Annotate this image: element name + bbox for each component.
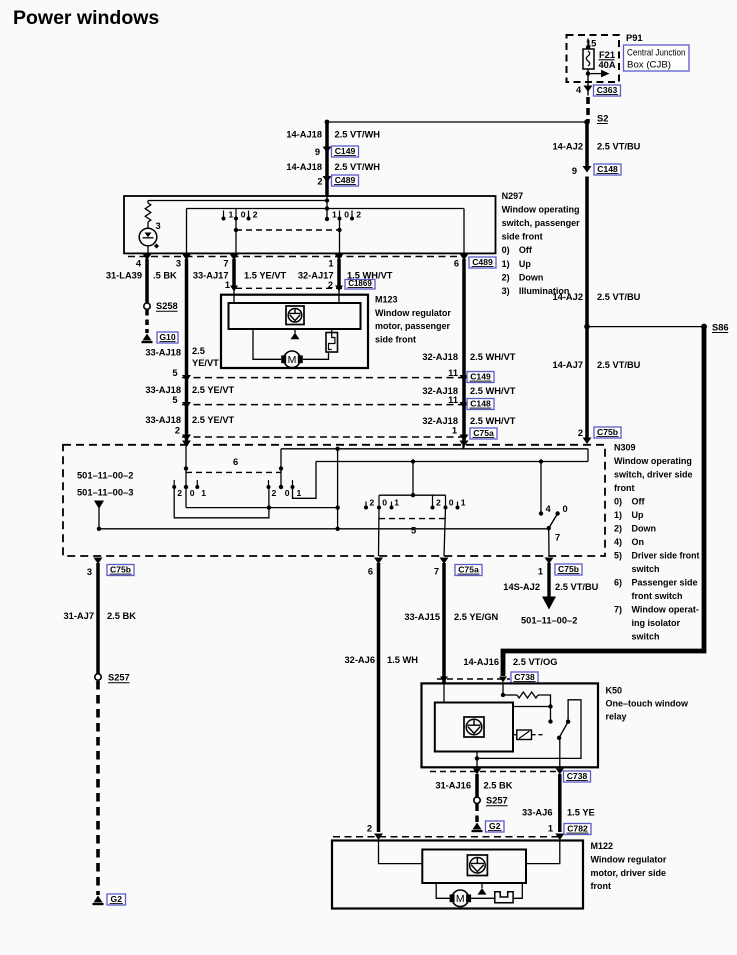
svg-text:31-LA39: 31-LA39	[106, 271, 142, 281]
passenger section contacts 2 0 1 / 2 0 1	[173, 480, 175, 487]
svg-text:3: 3	[156, 221, 161, 231]
svg-text:front: front	[591, 881, 612, 891]
svg-text:motor, driver side: motor, driver side	[591, 868, 667, 878]
svg-text:6): 6)	[614, 578, 622, 588]
svg-text:9: 9	[572, 166, 577, 176]
svg-text:Down: Down	[632, 524, 657, 534]
wire fuse output with feed arrow	[587, 69, 589, 96]
svg-text:501–11–00–2: 501–11–00–2	[521, 616, 577, 626]
mechanical link switch1-switch2	[236, 229, 340, 231]
svg-text:0: 0	[241, 209, 246, 219]
latching loop wires	[477, 700, 581, 759]
thermal cutout	[495, 892, 513, 903]
connector C363 pin 4	[584, 86, 593, 93]
svg-text:7: 7	[434, 567, 439, 577]
svg-text:Driver side front: Driver side front	[632, 551, 700, 561]
svg-text:C363: C363	[597, 85, 618, 95]
svg-text:1: 1	[201, 488, 206, 498]
connector C148 plane pins 5 11	[182, 404, 464, 406]
svg-text:G10: G10	[159, 332, 175, 342]
position sensor stem	[481, 883, 483, 888]
wire 32-AJ17 1.5 WH/VT to motor	[337, 259, 341, 288]
svg-text:2: 2	[367, 824, 372, 834]
svg-text:1.5 YE: 1.5 YE	[567, 808, 595, 818]
svg-text:2.5 WH/VT: 2.5 WH/VT	[470, 352, 516, 362]
relay output to C738	[559, 738, 561, 768]
svg-text:32-AJ6: 32-AJ6	[345, 655, 376, 665]
svg-text:S257: S257	[486, 796, 508, 806]
wire 33-AJ17 1.5 YE/VT to motor	[232, 259, 236, 288]
svg-text:M123: M123	[375, 295, 398, 305]
wire contact 1R to feed	[293, 462, 317, 499]
svg-text:2: 2	[370, 498, 375, 508]
svg-text:C782: C782	[567, 824, 588, 834]
wire 32-AJ18 2.5 WH/VT (passenger window)	[462, 259, 466, 441]
svg-text:1.5 YE/VT: 1.5 YE/VT	[244, 271, 287, 281]
connector C489 pin 2	[323, 176, 332, 183]
svg-text:0: 0	[449, 498, 454, 508]
svg-text:C75a: C75a	[473, 428, 494, 438]
svg-text:Illumination: Illumination	[519, 286, 570, 296]
svg-text:6: 6	[454, 259, 459, 269]
svg-text:G2: G2	[111, 894, 123, 904]
svg-text:2: 2	[175, 426, 180, 436]
svg-text:2.5 VT/WH: 2.5 VT/WH	[335, 130, 381, 140]
svg-text:501–11–00–3: 501–11–00–3	[77, 488, 133, 498]
switch 1 contacts 1-0-2	[223, 211, 225, 219]
svg-text:N297: N297	[502, 191, 524, 201]
wire pin2 C1869 into module	[338, 288, 340, 303]
wire 31-LA39 .5 BK to ground G10	[145, 259, 149, 303]
svg-text:9: 9	[315, 147, 320, 157]
svg-text:2.5 VT/BU: 2.5 VT/BU	[597, 360, 641, 370]
driver switch feed bar	[379, 494, 446, 496]
svg-text:1: 1	[225, 280, 230, 290]
svg-text:32-AJ18: 32-AJ18	[422, 352, 458, 362]
svg-text:Down: Down	[519, 272, 544, 282]
position sensor stem	[294, 329, 296, 333]
svg-text:switch: switch	[632, 564, 660, 574]
svg-text:S86: S86	[712, 322, 729, 332]
svg-text:1: 1	[328, 259, 333, 269]
Central Junction Box (CJB) label box	[624, 45, 690, 71]
connector C149 pin 9	[323, 147, 332, 154]
svg-text:2.5 VT/OG: 2.5 VT/OG	[513, 657, 557, 667]
connector C489 plane pins 4 3 7 1 6	[128, 256, 466, 258]
svg-text:14-AJ16: 14-AJ16	[463, 657, 499, 667]
svg-text:2): 2)	[614, 524, 622, 534]
wire 14-AJ18 2.5 VT/WH	[325, 122, 329, 197]
wiper column right passenger section	[280, 449, 282, 487]
splice S86	[587, 326, 704, 328]
mechanical link 6 passenger section	[186, 471, 281, 473]
svg-text:14-AJ18: 14-AJ18	[286, 162, 322, 172]
svg-text:33-AJ15: 33-AJ15	[404, 612, 440, 622]
svg-text:.5 BK: .5 BK	[153, 271, 177, 281]
svg-text:3: 3	[87, 567, 92, 577]
svg-text:C148: C148	[597, 164, 618, 174]
connector C149 plane pins 5 11	[182, 377, 464, 379]
wire feed line upper (WH/VT)	[281, 448, 588, 450]
svg-text:F21: F21	[599, 50, 615, 60]
svg-text:0: 0	[563, 504, 568, 514]
svg-text:1.5 WH: 1.5 WH	[387, 655, 418, 665]
motor module inner box	[229, 303, 361, 329]
svg-text:31-AJ16: 31-AJ16	[435, 781, 471, 791]
svg-text:32-AJ18: 32-AJ18	[422, 416, 458, 426]
svg-text:6: 6	[368, 567, 373, 577]
svg-text:Up: Up	[519, 259, 531, 269]
wire battery feed dashed to S2	[586, 97, 590, 122]
svg-text:2.5 VT/WH: 2.5 VT/WH	[335, 162, 381, 172]
svg-text:C75b: C75b	[597, 427, 618, 437]
svg-text:14S-AJ2: 14S-AJ2	[503, 582, 540, 592]
svg-text:M122: M122	[591, 841, 614, 851]
svg-text:side front: side front	[375, 334, 416, 344]
svg-text:C75b: C75b	[558, 564, 579, 574]
svg-text:0: 0	[190, 488, 195, 498]
wire YE/GN entry to module	[443, 683, 445, 702]
svg-text:7: 7	[555, 533, 560, 543]
svg-text:Central Junction: Central Junction	[627, 47, 686, 57]
svg-text:2: 2	[436, 498, 441, 508]
wire common return line	[99, 528, 549, 530]
relay switch blade	[559, 722, 568, 738]
svg-text:C738: C738	[514, 672, 535, 682]
wire WH/VT branch column	[337, 449, 339, 529]
svg-text:switch, driver side: switch, driver side	[614, 470, 693, 480]
splice S2	[327, 121, 587, 123]
svg-text:2: 2	[328, 280, 333, 290]
svg-text:1: 1	[394, 498, 399, 508]
connector C738 plane lower	[430, 771, 558, 773]
svg-text:31-AJ7: 31-AJ7	[64, 611, 95, 621]
motor M armature	[284, 351, 301, 368]
illumination lamp with resistor, position 3	[147, 201, 149, 204]
wire 33-AJ6 1.5 YE	[558, 774, 562, 832]
M122 window regulator motor driver side front - enclosure	[332, 841, 583, 909]
wire contact 2-2 link	[174, 487, 269, 518]
svg-text:1: 1	[461, 498, 466, 508]
wire thermal to module	[513, 883, 522, 898]
relay module inner box	[435, 703, 513, 752]
connector C738 plane upper	[437, 678, 510, 680]
svg-text:33-AJ6: 33-AJ6	[522, 808, 553, 818]
svg-text:Power windows: Power windows	[13, 7, 159, 29]
wire feed drop to driver switch	[412, 462, 414, 496]
svg-text:4: 4	[136, 259, 142, 269]
svg-text:S2: S2	[597, 113, 608, 123]
svg-text:switch, passenger: switch, passenger	[502, 218, 581, 228]
N309 exit arrows	[94, 558, 103, 565]
N297 window operating switch passenger side front - enclosure	[124, 196, 496, 253]
svg-text:YE/VT: YE/VT	[192, 358, 219, 368]
svg-text:0: 0	[382, 498, 387, 508]
connector C148 pin 9	[583, 166, 592, 173]
svg-text:2.5 VT/BU: 2.5 VT/BU	[597, 142, 641, 152]
svg-text:M: M	[288, 354, 297, 366]
svg-text:1: 1	[332, 209, 337, 219]
svg-text:0: 0	[344, 209, 349, 219]
switch 2 wiper to pin 1	[339, 219, 341, 254]
wire 32-AJ6 1.5 WH to M122	[377, 563, 381, 832]
internal switch feed wire	[187, 208, 465, 210]
svg-text:4: 4	[546, 504, 552, 514]
svg-text:5: 5	[411, 526, 416, 536]
svg-text:Off: Off	[632, 497, 646, 507]
svg-text:2.5 VT/BU: 2.5 VT/BU	[597, 292, 641, 302]
N309 entry arrows	[182, 441, 191, 448]
wire 14-AJ2 2.5 VT/BU upper	[585, 122, 589, 167]
motor module inner box	[422, 850, 526, 884]
svg-text:One–touch window: One–touch window	[606, 699, 689, 709]
svg-text:Window operat-: Window operat-	[632, 605, 699, 615]
svg-text:0): 0)	[614, 497, 622, 507]
svg-text:C1869: C1869	[348, 279, 372, 288]
svg-text:33-AJ18: 33-AJ18	[145, 385, 181, 395]
wire 14-AJ2 2.5 VT/BU to S86 junction	[585, 177, 589, 441]
svg-text:33-AJ18: 33-AJ18	[145, 415, 181, 425]
svg-text:M: M	[456, 893, 465, 905]
svg-text:32-AJ17: 32-AJ17	[298, 271, 334, 281]
svg-text:1: 1	[452, 426, 457, 436]
K50 one-touch window relay - enclosure	[422, 683, 599, 767]
internal illumination feed wire	[148, 200, 327, 202]
svg-text:1: 1	[229, 209, 234, 219]
svg-text:C149: C149	[470, 372, 491, 382]
fuse F21 40A	[587, 39, 589, 50]
svg-text:2): 2)	[502, 272, 510, 282]
svg-text:3: 3	[176, 259, 181, 269]
svg-text:0: 0	[285, 488, 290, 498]
svg-text:15: 15	[586, 38, 596, 48]
wire WH entry to module	[379, 841, 423, 864]
connector C782 plane pins 2 1	[333, 836, 560, 838]
wire module to motor left brush	[253, 329, 281, 359]
thermal protector	[326, 333, 338, 353]
svg-text:2.5 BK: 2.5 BK	[107, 611, 136, 621]
node pin2 entry column	[326, 196, 328, 219]
wire module to contact	[513, 706, 551, 708]
svg-text:6: 6	[233, 457, 238, 467]
svg-text:4): 4)	[614, 537, 622, 547]
svg-text:switch: switch	[632, 632, 660, 642]
svg-text:11: 11	[448, 395, 458, 405]
svg-text:Window operating: Window operating	[502, 205, 580, 215]
svg-text:C75a: C75a	[458, 565, 479, 575]
window regulator mechanism symbol	[467, 855, 487, 876]
wire module to motor left brush	[436, 883, 449, 898]
wire 31-AJ7 2.5 BK to ground G2	[96, 563, 100, 674]
svg-text:Up: Up	[632, 510, 644, 520]
svg-text:2.5 YE/VT: 2.5 YE/VT	[192, 415, 235, 425]
svg-text:ing isolator: ing isolator	[632, 618, 681, 628]
svg-text:501–11–00–2: 501–11–00–2	[77, 471, 133, 481]
wire thermal to motor right brush	[303, 352, 329, 359]
connector C75a plane pins 2 1	[182, 436, 467, 438]
svg-text:On: On	[632, 537, 645, 547]
wire VT/OG entry	[502, 683, 504, 695]
svg-text:2.5 WH/VT: 2.5 WH/VT	[470, 386, 516, 396]
svg-text:2.5 YE/GN: 2.5 YE/GN	[454, 612, 499, 622]
svg-text:1: 1	[548, 824, 553, 834]
svg-text:4: 4	[576, 85, 582, 95]
svg-text:1: 1	[538, 567, 543, 577]
resistor in relay	[503, 694, 517, 696]
svg-text:40A: 40A	[599, 60, 616, 70]
svg-text:C75b: C75b	[110, 565, 131, 575]
svg-text:motor, passenger: motor, passenger	[375, 321, 451, 331]
svg-text:5: 5	[172, 368, 177, 378]
svg-text:S258: S258	[156, 301, 178, 311]
svg-text:5): 5)	[614, 551, 622, 561]
svg-text:Window regulator: Window regulator	[375, 308, 451, 318]
motor M armature	[452, 890, 469, 907]
svg-text:2.5: 2.5	[192, 346, 205, 356]
module symbol	[464, 717, 484, 737]
svg-text:Passenger side: Passenger side	[632, 578, 698, 588]
svg-text:C738: C738	[567, 771, 588, 781]
svg-text:11: 11	[448, 368, 458, 378]
svg-text:14-AJ18: 14-AJ18	[286, 130, 322, 140]
svg-text:N309: N309	[614, 443, 636, 453]
window regulator mechanism symbol	[286, 306, 304, 325]
wire feed line lower (VT/BU)	[316, 461, 588, 463]
svg-text:5: 5	[172, 395, 177, 405]
svg-text:1): 1)	[614, 510, 622, 520]
svg-text:relay: relay	[606, 712, 627, 722]
svg-text:14-AJ2: 14-AJ2	[553, 142, 584, 152]
svg-text:front switch: front switch	[632, 591, 683, 601]
svg-text:P91: P91	[626, 33, 643, 43]
mechanical link 5 driver section	[379, 518, 446, 520]
pin 3 internal column	[186, 209, 188, 254]
svg-text:Window regulator: Window regulator	[591, 854, 667, 864]
svg-text:33-AJ18: 33-AJ18	[145, 348, 181, 358]
wire 33-AJ18 2.5 YE/VT (passenger window feed)	[185, 259, 189, 441]
wire 31-AJ16 2.5 BK to ground G2	[475, 774, 479, 797]
svg-text:C149: C149	[335, 146, 356, 156]
svg-text:Box (CJB): Box (CJB)	[627, 59, 671, 69]
svg-text:2.5 YE/VT: 2.5 YE/VT	[192, 385, 235, 395]
driver wiper outputs to pins 6 and 7	[378, 508, 381, 557]
M123 window regulator motor passenger side front - enclosure	[221, 295, 368, 368]
wire motor right brush to thermal	[471, 897, 495, 899]
svg-text:2.5 WH/VT: 2.5 WH/VT	[470, 416, 516, 426]
wire horizontal node to WH/VT	[186, 507, 338, 509]
pin 6 internal column	[463, 209, 465, 254]
svg-text:2.5 VT/BU: 2.5 VT/BU	[555, 582, 599, 592]
svg-text:Window operating: Window operating	[614, 456, 692, 466]
svg-text:G2: G2	[489, 821, 501, 831]
svg-text:K50: K50	[606, 686, 623, 696]
svg-text:C148: C148	[470, 399, 491, 409]
wire YE/VT wiper column passenger section	[185, 445, 187, 508]
wire S86 feed down and across to one-touch relay	[503, 327, 704, 676]
driver switch contacts 2 0 1 / 2 0 1	[365, 502, 367, 508]
N309 window operating switch driver side front - enclosure	[63, 445, 605, 556]
svg-text:Off: Off	[519, 245, 533, 255]
wire 14S-AJ2 2.5 VT/BU off-page down arrow	[547, 563, 550, 597]
svg-text:C489: C489	[335, 175, 356, 185]
switch 1 wiper to pin 7	[235, 219, 237, 254]
svg-text:C489: C489	[472, 257, 493, 267]
svg-text:33-AJ17: 33-AJ17	[193, 271, 229, 281]
wire 33-AJ15 2.5 YE/GN to relay	[442, 563, 446, 683]
svg-text:1: 1	[297, 488, 302, 498]
svg-text:front: front	[614, 483, 635, 493]
svg-text:14-AJ7: 14-AJ7	[553, 360, 584, 370]
connector C1869 plane pins 1 2	[236, 287, 344, 289]
svg-text:2: 2	[177, 488, 182, 498]
switch 2 contacts 1-0-2	[339, 211, 341, 219]
wire pin1 C1869 into module	[233, 288, 235, 303]
relay ground output	[476, 758, 478, 767]
svg-text:2: 2	[317, 177, 322, 187]
svg-text:7): 7)	[614, 605, 622, 615]
svg-text:3): 3)	[502, 286, 510, 296]
svg-text:S257: S257	[108, 673, 130, 683]
svg-text:0): 0)	[502, 245, 510, 255]
svg-text:7: 7	[223, 259, 228, 269]
wire YE entry to module	[526, 841, 560, 864]
svg-text:side front: side front	[502, 232, 543, 242]
svg-text:2: 2	[578, 428, 583, 438]
svg-text:1): 1)	[502, 259, 510, 269]
svg-text:2: 2	[253, 209, 258, 219]
isolator switch 4-0 position 7	[540, 462, 542, 514]
svg-text:2.5 BK: 2.5 BK	[484, 781, 513, 791]
relay coil	[517, 730, 532, 740]
svg-text:2: 2	[356, 209, 361, 219]
svg-text:2: 2	[272, 488, 277, 498]
P91 Central Junction Box dashed enclosure	[567, 35, 620, 82]
